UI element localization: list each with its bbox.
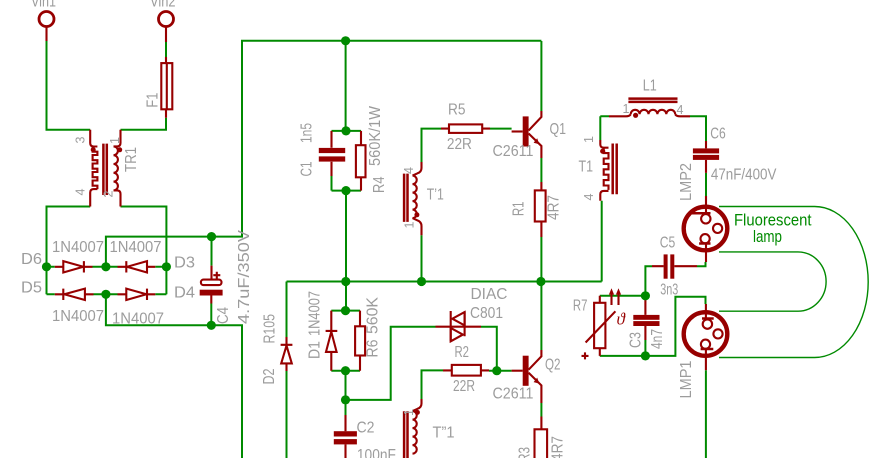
wire Vin1 to TR1 pin3 (47, 41, 91, 130)
svg-text:1: 1 (108, 137, 122, 144)
node C4 minus (207, 321, 216, 330)
inductor T'1 (404, 162, 421, 235)
wire Q1 emitter to R1 (540, 158, 542, 182)
wire bridge left column (46, 267, 48, 295)
svg-text:R5: R5 (448, 102, 466, 119)
resistor R2 (443, 365, 489, 376)
svg-text:3: 3 (74, 137, 88, 144)
wire mid rail left corner to D2 (286, 282, 288, 338)
wire C1/R4 top bracket (332, 130, 362, 132)
svg-text:R7: R7 (573, 298, 588, 315)
wire R5 left lead to T'1 (422, 129, 442, 162)
resistor R6 (355, 311, 365, 371)
svg-text:R6: R6 (365, 340, 382, 358)
diode D3 (118, 261, 156, 272)
svg-text:Vin1: Vin1 (31, 0, 56, 11)
resistor R3 (535, 417, 548, 458)
wire C4 top lead (211, 237, 213, 266)
svg-text:1N4007: 1N4007 (52, 239, 104, 256)
terminal Vin1 (39, 12, 54, 42)
svg-text:D5: D5 (21, 280, 42, 297)
node bridge row1 left (42, 262, 51, 271)
wire D1/R6 bottom bracket (331, 370, 360, 372)
svg-text:C5: C5 (660, 235, 676, 252)
svg-text:LMP2: LMP2 (678, 163, 695, 201)
svg-text:TR1: TR1 (123, 147, 140, 172)
svg-text:1: 1 (403, 222, 417, 229)
svg-text:560K/1W: 560K/1W (367, 106, 384, 166)
wire bridge row2 segments (47, 293, 167, 295)
svg-text:C801: C801 (470, 305, 503, 322)
svg-text:1N4007: 1N4007 (52, 308, 104, 325)
node C4 plus (207, 232, 216, 241)
capacitor C5 (652, 254, 697, 278)
svg-text:Q2: Q2 (545, 357, 561, 374)
svg-text:2: 2 (102, 191, 116, 198)
svg-text:T’1: T’1 (427, 187, 444, 204)
svg-text:22R: 22R (447, 136, 472, 153)
resistor R4 (356, 131, 366, 191)
node bridge row1 mid (101, 262, 110, 271)
wire T'1 pin1 to mid rail (421, 235, 423, 281)
wire LMP1 bottom to edge (705, 370, 707, 458)
svg-text:R3: R3 (517, 447, 534, 458)
wire C4 bottom lead (210, 304, 212, 326)
wire D1/R6 top bracket (331, 310, 360, 312)
wire D2 bottom to edge (286, 371, 288, 458)
node top rail junction (341, 36, 350, 45)
node D1/R6 bottom (341, 366, 350, 375)
wire C1 bottom green (331, 176, 333, 191)
wire mid rail right corner up to T1 pin4 (601, 201, 603, 282)
wire bridge right column (165, 267, 167, 295)
transistor Q1 (512, 111, 542, 158)
svg-text:100nF: 100nF (357, 447, 396, 458)
capacitor C1 (319, 131, 345, 176)
svg-text:1N4007: 1N4007 (307, 291, 324, 336)
wire C2 node to C2 (345, 400, 347, 415)
wire F1 to TR1 pin1 (121, 118, 167, 130)
wire TR1 pin2 to bridge right (121, 207, 167, 267)
node mid rail at spine (341, 277, 350, 286)
svg-text:C6: C6 (710, 126, 726, 143)
svg-text:R2: R2 (455, 344, 470, 361)
node A C5/R7/C3 top (641, 291, 650, 300)
node C2/DIAC branch (341, 395, 350, 404)
svg-text:4n7: 4n7 (649, 329, 666, 349)
svg-text:L1: L1 (643, 78, 657, 95)
wire C3 bottom lead (644, 340, 646, 356)
wire LMP2 bottom to C5 (697, 262, 706, 266)
resistor R7 thermistor (582, 288, 627, 359)
wire C1/R4 node down to mid rail and D1/R6 (345, 191, 347, 311)
wire R7 bottom to C3 bottom to LMP1 top (600, 297, 706, 356)
svg-text:R105: R105 (262, 314, 279, 344)
svg-text:1N4007: 1N4007 (110, 239, 162, 256)
svg-text:4.7uF/350V: 4.7uF/350V (236, 229, 253, 324)
diode D1 (326, 311, 338, 371)
wire DIAC right to R2/Q2 base node (481, 327, 497, 371)
inductor L1 (609, 99, 690, 118)
inductor T"1 (404, 399, 421, 458)
svg-text:T1: T1 (579, 159, 594, 176)
terminal Vin2 (159, 12, 174, 43)
node mid rail at T'1 (417, 277, 426, 286)
wire DC+ node to top rail (106, 41, 542, 267)
svg-text:4: 4 (582, 194, 596, 201)
diode D5 (55, 289, 94, 300)
resistor R5 (441, 124, 490, 132)
svg-text:22R: 22R (453, 378, 475, 395)
svg-text:4: 4 (677, 103, 684, 117)
wire mid rail (287, 281, 602, 283)
svg-text:1: 1 (402, 409, 416, 416)
node Q2 base (492, 366, 501, 375)
wire L1 pin4 to C6 (690, 116, 706, 141)
svg-text:C1: C1 (299, 162, 316, 177)
diode D6 (55, 261, 93, 272)
diode D2 (281, 337, 293, 371)
node C3/R7 bottom (641, 351, 650, 360)
svg-text:C3: C3 (628, 332, 645, 348)
svg-text:D2: D2 (261, 369, 278, 385)
wire R2 left lead to T"1 pin1 (422, 370, 444, 399)
svg-text:4: 4 (74, 189, 88, 196)
svg-text:C2: C2 (357, 420, 375, 437)
svg-text:1N4007: 1N4007 (112, 311, 164, 328)
svg-text:DIAC: DIAC (471, 286, 508, 303)
svg-text:4: 4 (402, 167, 416, 174)
svg-text:D1: D1 (307, 341, 324, 359)
capacitor C3 (633, 296, 659, 340)
svg-text:LMP1: LMP1 (678, 361, 695, 399)
tube outer outline (719, 207, 868, 358)
fuse F1 (161, 57, 172, 118)
diac C801 (436, 311, 482, 342)
lamp LMP2 (684, 196, 728, 262)
svg-text:Q1: Q1 (550, 121, 567, 138)
wire D1/R6 down to C2 node (345, 371, 347, 400)
lamp LMP1 (684, 304, 728, 370)
diode D4 (118, 289, 156, 300)
svg-text:560K: 560K (365, 296, 382, 334)
transistor Q2 (512, 350, 542, 403)
wire R1 bottom to mid rail (540, 237, 542, 282)
svg-text:D4: D4 (174, 285, 195, 302)
svg-text:Fluorescent: Fluorescent (734, 212, 812, 230)
node bridge row1 right (162, 262, 171, 271)
svg-text:3n3: 3n3 (660, 282, 678, 299)
svg-text:F1: F1 (145, 93, 162, 108)
wire mid rail to Q2 collector (540, 282, 542, 351)
wire top rail junction down to C1/R4 (345, 41, 347, 131)
svg-text:D6: D6 (21, 251, 42, 268)
svg-text:Vin2: Vin2 (150, 0, 176, 11)
node C1/R4 top (341, 126, 350, 135)
wire C2 node to DIAC left (346, 327, 436, 400)
svg-text:lamp: lamp (753, 228, 782, 246)
wire Vin2 to F1 (165, 42, 167, 57)
svg-text:1n5: 1n5 (299, 123, 316, 143)
wire Q2 emitter to R3 (540, 403, 542, 417)
resistor R1 (535, 182, 546, 237)
node C1/R4 bottom (341, 186, 350, 195)
svg-text:C2611: C2611 (493, 143, 534, 160)
node mid rail at R1/Q2 (536, 277, 545, 286)
svg-text:D3: D3 (174, 255, 195, 272)
capacitor C6 (693, 141, 719, 173)
capacitor C4 polarized (200, 266, 223, 304)
node bridge row2 mid (101, 290, 110, 299)
svg-text:1: 1 (582, 136, 596, 143)
wire R5 to Q1 base (490, 128, 512, 130)
svg-text:C4: C4 (215, 307, 232, 324)
tube inner outline (719, 252, 826, 311)
svg-text:C2611: C2611 (493, 386, 534, 403)
wire DC- node to bottom left rail (106, 294, 242, 458)
wire C6 to LMP2 top (705, 173, 707, 196)
transformer TR1 (90, 130, 122, 207)
wire R7 top to node A (600, 295, 646, 297)
svg-text:R1: R1 (511, 202, 528, 217)
svg-text:1: 1 (623, 102, 630, 116)
wire C1/R4 bottom bracket (332, 190, 362, 192)
wire R2 right to base node to Q2 (489, 370, 512, 372)
svg-text:47nF/400V: 47nF/400V (711, 167, 777, 184)
wire T1/L1 node (600, 116, 609, 140)
svg-text:R4: R4 (371, 176, 388, 193)
svg-text:T”1: T”1 (433, 425, 455, 442)
capacitor C2 (334, 415, 357, 458)
node D1/R6 top (341, 306, 350, 315)
wire TR1 pin4 to bridge left (47, 207, 91, 267)
wire Q1 collector to top rail (540, 41, 542, 111)
wire C5 left lead down to node A (645, 266, 652, 296)
wire bridge row1 segments (47, 266, 167, 268)
transformer T1 (600, 140, 617, 201)
svg-text:4R7: 4R7 (546, 195, 563, 220)
svg-text:4R7: 4R7 (550, 436, 567, 458)
